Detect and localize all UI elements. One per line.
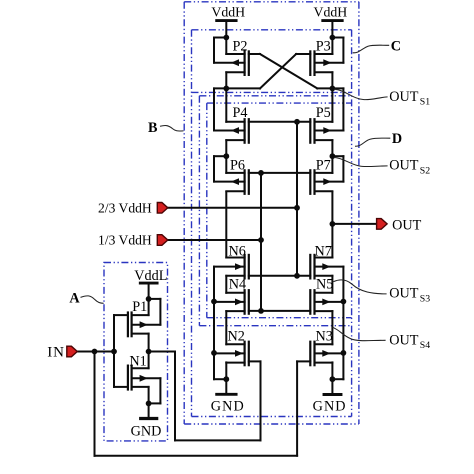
svg-text:P1: P1: [132, 299, 147, 315]
svg-text:OUT: OUT: [392, 218, 421, 234]
svg-text:C: C: [391, 39, 401, 55]
svg-text:P2: P2: [233, 39, 248, 55]
svg-text:OUT: OUT: [389, 89, 418, 105]
svg-text:VddH: VddH: [211, 4, 245, 19]
svg-text:VddH: VddH: [314, 4, 348, 19]
svg-text:GND: GND: [131, 423, 162, 439]
svg-text:S4: S4: [420, 340, 430, 351]
svg-text:A: A: [69, 290, 80, 306]
svg-text:S3: S3: [420, 293, 430, 304]
svg-text:OUT: OUT: [389, 332, 418, 348]
svg-text:OUT: OUT: [389, 158, 418, 174]
svg-text:P5: P5: [316, 105, 331, 121]
svg-text:P4: P4: [233, 105, 248, 121]
svg-text:N4: N4: [229, 276, 246, 292]
svg-text:IN: IN: [47, 344, 65, 360]
svg-text:GND: GND: [313, 398, 347, 414]
svg-text:1/3 VddH: 1/3 VddH: [98, 233, 152, 248]
svg-text:N3: N3: [316, 329, 333, 345]
svg-text:GND: GND: [211, 398, 245, 414]
svg-text:N1: N1: [129, 353, 146, 369]
svg-text:S1: S1: [420, 97, 430, 108]
svg-text:N5: N5: [316, 276, 333, 292]
svg-text:N7: N7: [315, 244, 332, 260]
svg-text:P7: P7: [316, 157, 331, 173]
svg-text:S2: S2: [420, 165, 430, 176]
svg-text:N6: N6: [229, 244, 246, 260]
svg-text:OUT: OUT: [389, 286, 418, 302]
svg-text:P6: P6: [230, 157, 245, 173]
svg-text:2/3 VddH: 2/3 VddH: [98, 200, 152, 215]
svg-text:P3: P3: [316, 39, 331, 55]
svg-text:B: B: [148, 120, 158, 136]
svg-text:N2: N2: [228, 329, 245, 345]
svg-text:D: D: [392, 131, 402, 147]
svg-text:VddL: VddL: [134, 268, 167, 284]
